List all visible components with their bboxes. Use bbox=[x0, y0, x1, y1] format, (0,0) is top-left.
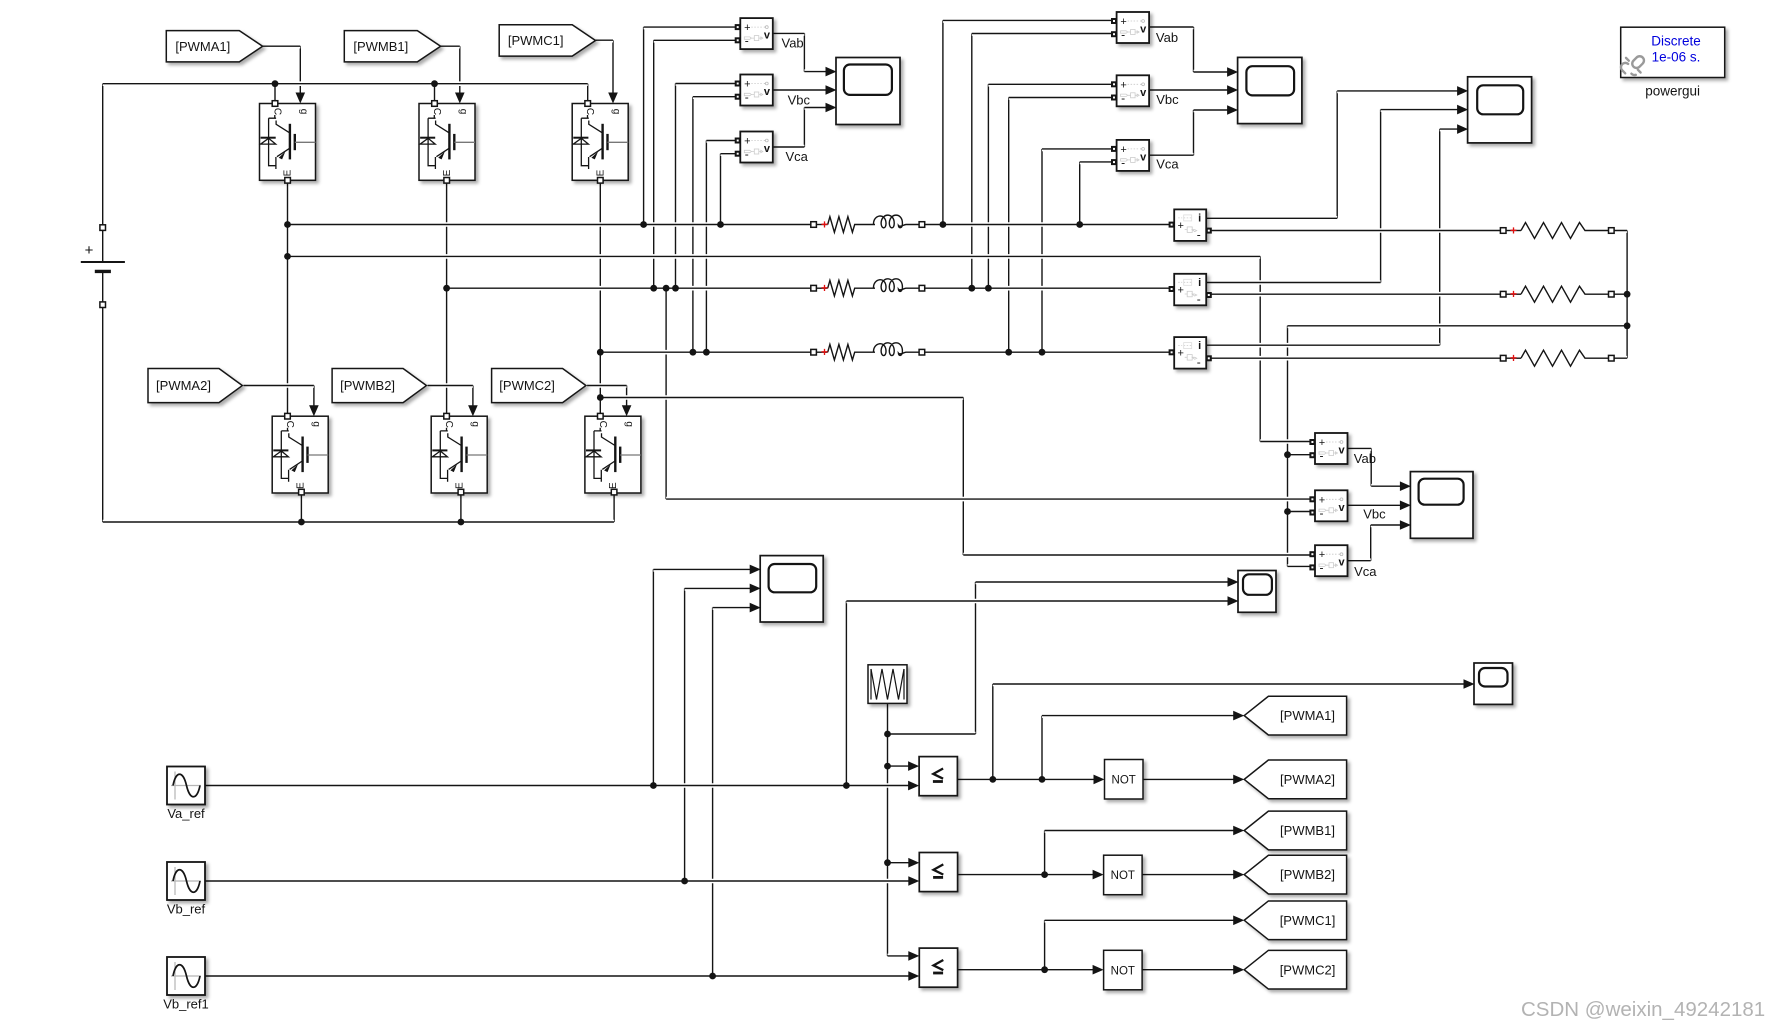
svg-text:g: g bbox=[470, 421, 481, 427]
svg-text:powergui: powergui bbox=[1645, 84, 1700, 99]
svg-text:+: + bbox=[744, 136, 750, 148]
svg-text:Vab: Vab bbox=[1354, 451, 1376, 466]
svg-text:Vbc: Vbc bbox=[788, 92, 811, 107]
svg-text:Vb_ref: Vb_ref bbox=[167, 902, 206, 917]
svg-text:[PWMA2]: [PWMA2] bbox=[1280, 772, 1335, 787]
svg-text:v: v bbox=[1140, 87, 1147, 99]
svg-text:Va_ref: Va_ref bbox=[167, 806, 205, 821]
svg-text:Vbc: Vbc bbox=[1363, 507, 1386, 522]
svg-text:i: i bbox=[1198, 340, 1201, 352]
svg-text:g: g bbox=[623, 421, 634, 427]
svg-text:i: i bbox=[1198, 212, 1201, 224]
svg-text:v: v bbox=[1339, 557, 1346, 569]
svg-text:v: v bbox=[764, 30, 771, 42]
svg-text:C: C bbox=[443, 421, 454, 428]
svg-text:-: - bbox=[1320, 449, 1324, 463]
svg-text:Vb_ref1: Vb_ref1 bbox=[163, 997, 209, 1012]
svg-text:v: v bbox=[1140, 151, 1147, 163]
svg-text:-: - bbox=[1197, 292, 1201, 306]
svg-text:NOT: NOT bbox=[1111, 870, 1135, 882]
svg-text:Vab: Vab bbox=[1156, 30, 1178, 45]
svg-text:C: C bbox=[431, 108, 442, 115]
svg-text:[PWMC2]: [PWMC2] bbox=[1280, 962, 1336, 977]
svg-text:C: C bbox=[584, 108, 595, 115]
svg-text:-: - bbox=[745, 147, 749, 161]
svg-text:i: i bbox=[1198, 277, 1201, 289]
svg-text:NOT: NOT bbox=[1112, 775, 1136, 787]
svg-text:v: v bbox=[1339, 502, 1346, 514]
svg-text:[PWMC1]: [PWMC1] bbox=[1280, 913, 1336, 928]
svg-text:[PWMB1]: [PWMB1] bbox=[353, 39, 408, 54]
svg-text:Vbc: Vbc bbox=[1156, 92, 1179, 107]
svg-text:E: E bbox=[295, 482, 306, 489]
svg-text:E: E bbox=[283, 169, 294, 176]
svg-text:-: - bbox=[745, 34, 749, 48]
svg-text:+: + bbox=[1120, 16, 1126, 28]
svg-text:-: - bbox=[1121, 28, 1125, 42]
svg-text:C: C bbox=[597, 421, 608, 428]
svg-text:g: g bbox=[311, 421, 322, 427]
svg-text:C: C bbox=[284, 421, 295, 428]
svg-text:[PWMB2]: [PWMB2] bbox=[340, 378, 395, 393]
svg-text:-: - bbox=[1320, 561, 1324, 575]
svg-text:CSDN @weixin_49242181: CSDN @weixin_49242181 bbox=[1521, 998, 1765, 1021]
svg-text:[PWMA2]: [PWMA2] bbox=[156, 378, 211, 393]
svg-text:+: + bbox=[1319, 437, 1325, 449]
svg-text:Vca: Vca bbox=[1354, 564, 1377, 579]
svg-text:[PWMC1]: [PWMC1] bbox=[508, 33, 564, 48]
svg-text:g: g bbox=[458, 109, 469, 115]
svg-text:+: + bbox=[1177, 220, 1183, 232]
svg-text:E: E bbox=[595, 169, 606, 176]
svg-text:NOT: NOT bbox=[1111, 965, 1135, 977]
svg-text:[PWMB2]: [PWMB2] bbox=[1280, 867, 1335, 882]
svg-text:+: + bbox=[821, 345, 828, 359]
svg-text:+: + bbox=[1177, 348, 1183, 360]
svg-text:+: + bbox=[1120, 144, 1126, 156]
svg-text:v: v bbox=[1140, 24, 1147, 36]
svg-text:[PWMA1]: [PWMA1] bbox=[1280, 708, 1335, 723]
svg-text:g: g bbox=[611, 109, 622, 115]
svg-text:v: v bbox=[764, 86, 771, 98]
svg-text:+: + bbox=[744, 79, 750, 91]
svg-text:+: + bbox=[821, 281, 828, 295]
svg-text:-: - bbox=[1197, 227, 1201, 241]
svg-text:+: + bbox=[821, 218, 828, 232]
svg-text:Vca: Vca bbox=[1156, 156, 1179, 171]
svg-text:+: + bbox=[744, 22, 750, 34]
svg-text:+: + bbox=[1319, 494, 1325, 506]
svg-text:+: + bbox=[1510, 224, 1517, 238]
svg-text:[PWMA1]: [PWMA1] bbox=[175, 39, 230, 54]
svg-text:C: C bbox=[272, 108, 283, 115]
svg-text:+: + bbox=[1510, 351, 1517, 365]
svg-text:Vab: Vab bbox=[782, 36, 804, 51]
svg-text:E: E bbox=[608, 482, 619, 489]
svg-text:E: E bbox=[442, 169, 453, 176]
svg-text:E: E bbox=[454, 482, 465, 489]
svg-text:g: g bbox=[298, 109, 309, 115]
svg-text:+: + bbox=[1177, 284, 1183, 296]
svg-text:+: + bbox=[85, 242, 94, 259]
svg-text:Discrete: Discrete bbox=[1651, 34, 1701, 49]
svg-text:v: v bbox=[1339, 445, 1346, 457]
svg-text:1e-06 s.: 1e-06 s. bbox=[1652, 50, 1701, 65]
svg-text:[PWMC2]: [PWMC2] bbox=[499, 378, 555, 393]
svg-text:+: + bbox=[1510, 287, 1517, 301]
svg-text:-: - bbox=[1121, 155, 1125, 169]
svg-text:+: + bbox=[1319, 549, 1325, 561]
svg-text:-: - bbox=[1121, 91, 1125, 105]
svg-text:-: - bbox=[745, 90, 749, 104]
svg-text:+: + bbox=[1120, 79, 1126, 91]
svg-text:Vca: Vca bbox=[786, 149, 809, 164]
svg-text:-: - bbox=[1320, 506, 1324, 520]
svg-text:-: - bbox=[1197, 355, 1201, 369]
svg-text:v: v bbox=[764, 143, 771, 155]
svg-text:[PWMB1]: [PWMB1] bbox=[1280, 823, 1335, 838]
